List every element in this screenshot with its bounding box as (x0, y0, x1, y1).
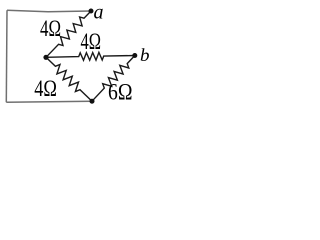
label: 4ohm on R2 (81, 29, 102, 54)
bottom junction dot (90, 99, 95, 104)
middle junction dot (43, 55, 48, 60)
svg-text:a: a (94, 1, 104, 23)
svg-text:b: b (140, 45, 150, 65)
label: 6ohm on R4 (108, 79, 133, 104)
node b junction dot (132, 53, 137, 58)
svg-text:6Ω: 6Ω (108, 79, 133, 104)
svg-text:4Ω: 4Ω (34, 76, 57, 101)
wire: left side (5, 10, 8, 102)
wire: bottom (left corner to bottom node) (6, 101, 92, 102)
svg-text:4Ω: 4Ω (40, 16, 61, 41)
node a junction dot (89, 9, 94, 14)
label: 4ohm on R3 (34, 76, 57, 101)
label: 4ohm on R1 (40, 16, 61, 41)
resistor R3 4ohm (middle node to bottom node) (46, 57, 92, 101)
resistor R2 4ohm (middle node to node b) (46, 52, 135, 60)
resistor R1 4ohm (node a to middle node) (46, 11, 91, 57)
svg-text:4Ω: 4Ω (81, 29, 102, 54)
label: node a (94, 1, 104, 23)
label: node b (140, 45, 150, 65)
wire: top (left corner to node a) (7, 10, 91, 12)
resistor R4 6ohm (bottom node to node b) (92, 56, 135, 102)
